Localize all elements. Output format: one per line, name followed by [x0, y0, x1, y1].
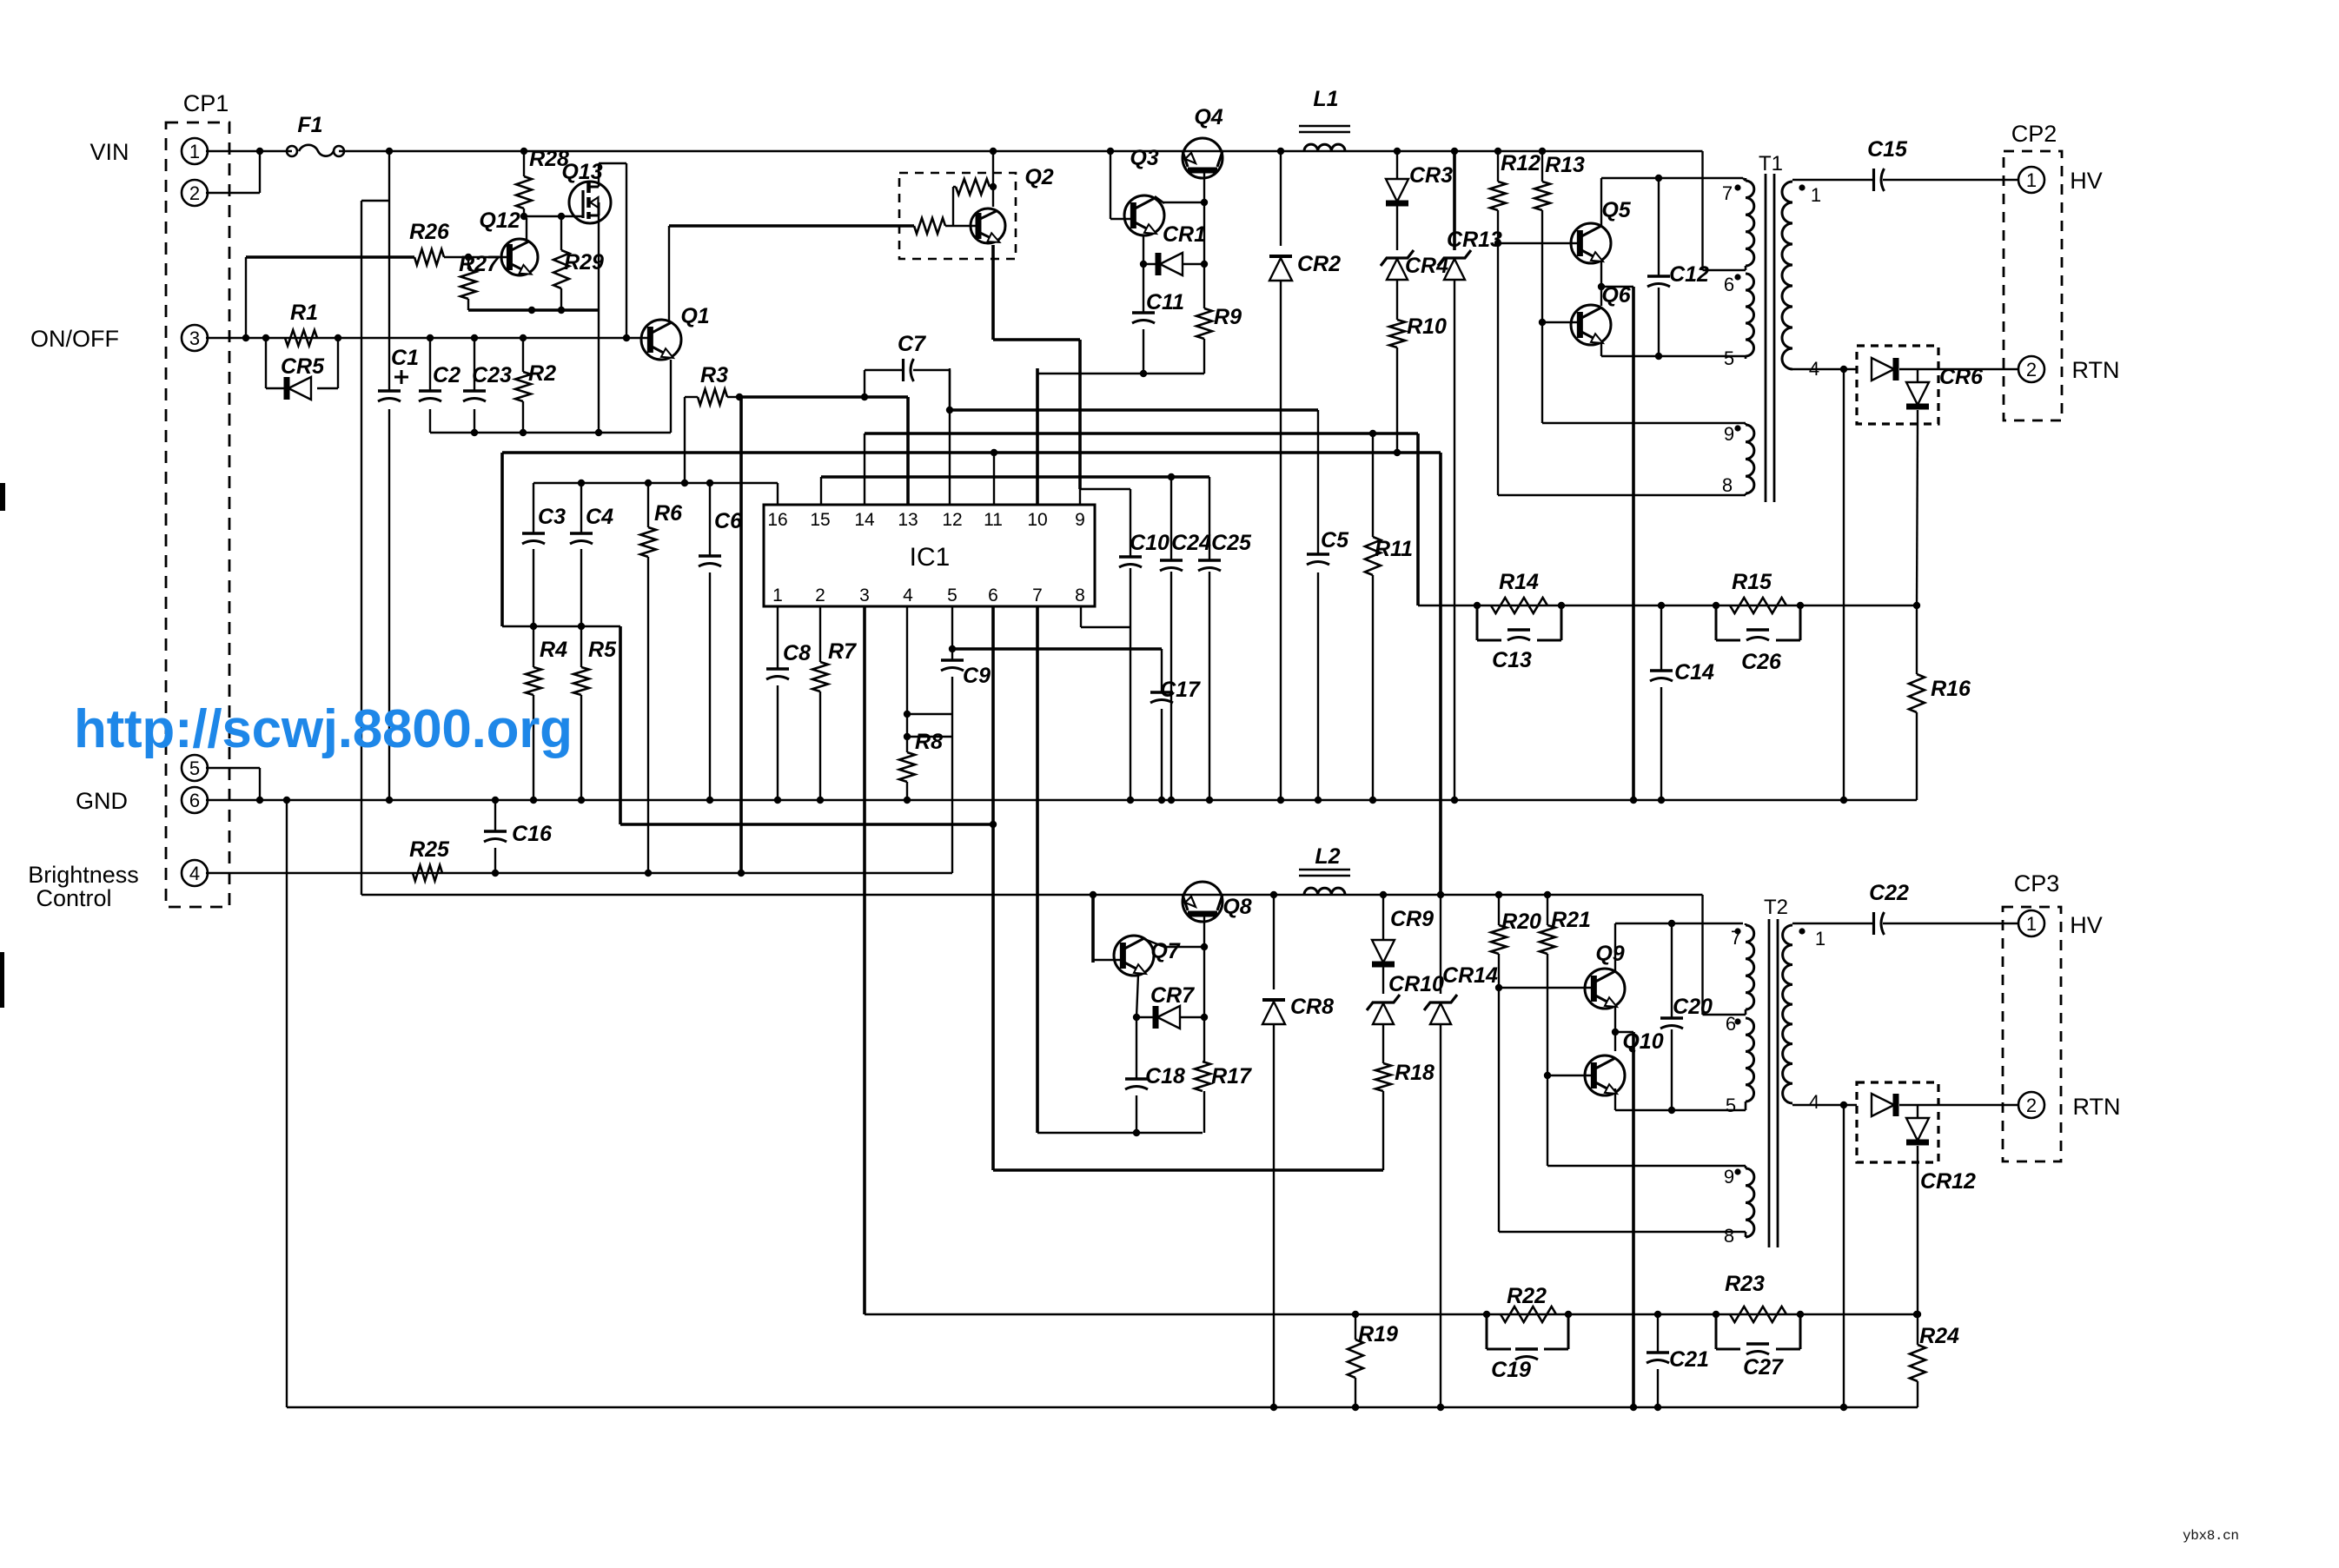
- svg-text:7: 7: [1722, 182, 1733, 204]
- svg-text:9: 9: [1724, 423, 1734, 445]
- svg-text:Control: Control: [36, 885, 111, 911]
- svg-text:2: 2: [815, 586, 825, 605]
- svg-text:T1: T1: [1759, 152, 1783, 175]
- svg-text:C3: C3: [538, 505, 566, 529]
- svg-text:9: 9: [1724, 1166, 1734, 1188]
- svg-text:CR5: CR5: [281, 354, 325, 379]
- svg-text:R4: R4: [540, 638, 567, 662]
- svg-text:1: 1: [2026, 913, 2037, 935]
- svg-text:CR6: CR6: [1939, 365, 1984, 389]
- svg-text:R9: R9: [1214, 305, 1242, 329]
- svg-text:C5: C5: [1321, 528, 1349, 552]
- svg-text:R5: R5: [588, 638, 617, 662]
- svg-text:Q12: Q12: [479, 208, 520, 233]
- svg-text:VIN: VIN: [89, 139, 129, 165]
- svg-text:C17: C17: [1160, 678, 1201, 702]
- svg-text:ON/OFF: ON/OFF: [30, 326, 119, 352]
- svg-text:1: 1: [2026, 169, 2037, 191]
- svg-text:R14: R14: [1499, 570, 1539, 594]
- svg-text:1: 1: [1811, 184, 1821, 206]
- svg-text:R23: R23: [1725, 1272, 1765, 1296]
- svg-text:CR3: CR3: [1409, 163, 1453, 188]
- svg-text:5: 5: [1726, 1095, 1736, 1116]
- svg-text:10: 10: [1027, 510, 1047, 530]
- svg-text:C16: C16: [512, 822, 553, 846]
- svg-text:CP2: CP2: [2011, 121, 2057, 147]
- svg-text:4: 4: [903, 586, 913, 605]
- svg-text:CR1: CR1: [1163, 222, 1206, 247]
- svg-text:C25: C25: [1211, 531, 1252, 555]
- svg-text:IC1: IC1: [910, 543, 951, 572]
- svg-text:CP1: CP1: [183, 90, 229, 116]
- svg-text:4: 4: [1809, 1091, 1819, 1113]
- svg-text:C9: C9: [963, 664, 991, 688]
- svg-text:ybx8.cn: ybx8.cn: [2183, 1528, 2239, 1544]
- svg-text:C24: C24: [1171, 531, 1211, 555]
- svg-text:R11: R11: [1375, 537, 1413, 561]
- svg-text:7: 7: [1731, 927, 1741, 949]
- svg-text:C4: C4: [586, 505, 613, 529]
- svg-text:R21: R21: [1551, 908, 1591, 932]
- svg-text:2: 2: [189, 182, 200, 204]
- svg-text:Q3: Q3: [1130, 146, 1158, 170]
- svg-text:5: 5: [947, 586, 957, 605]
- svg-text:16: 16: [767, 510, 787, 530]
- svg-text:14: 14: [854, 510, 875, 530]
- svg-text:T2: T2: [1764, 896, 1788, 919]
- svg-text:L1: L1: [1313, 87, 1338, 111]
- svg-text:6: 6: [1726, 1013, 1736, 1035]
- svg-text:C21: C21: [1669, 1347, 1709, 1372]
- svg-text:C27: C27: [1743, 1355, 1784, 1379]
- svg-text:R20: R20: [1501, 910, 1541, 934]
- svg-text:R6: R6: [654, 501, 683, 526]
- svg-text:R27: R27: [459, 252, 500, 276]
- svg-text:C20: C20: [1673, 995, 1713, 1019]
- svg-text:R8: R8: [915, 730, 943, 754]
- svg-text:R10: R10: [1407, 314, 1447, 339]
- svg-text:Q2: Q2: [1024, 165, 1053, 189]
- svg-text:R2: R2: [528, 361, 556, 386]
- svg-text:C14: C14: [1674, 660, 1714, 685]
- svg-text:C23: C23: [472, 363, 512, 387]
- svg-text:CR2: CR2: [1297, 252, 1341, 276]
- svg-text:C10: C10: [1130, 531, 1169, 555]
- svg-text:9: 9: [1075, 510, 1085, 530]
- svg-text:Brightness: Brightness: [28, 862, 139, 888]
- svg-text:6: 6: [988, 586, 998, 605]
- svg-text:Q1: Q1: [680, 304, 709, 328]
- svg-text:CR7: CR7: [1150, 983, 1195, 1008]
- svg-text:RTN: RTN: [2071, 357, 2119, 383]
- svg-text:R29: R29: [564, 250, 604, 275]
- svg-text:1: 1: [1815, 928, 1825, 949]
- svg-text:8: 8: [1722, 474, 1733, 496]
- svg-text:HV: HV: [2070, 912, 2103, 938]
- svg-text:5: 5: [189, 758, 200, 779]
- svg-text:R13: R13: [1545, 153, 1585, 177]
- svg-text:3: 3: [189, 327, 200, 349]
- svg-text:Q10: Q10: [1622, 1029, 1663, 1054]
- svg-text:F1: F1: [297, 113, 322, 137]
- svg-text:R16: R16: [1931, 677, 1971, 701]
- svg-text:6: 6: [189, 790, 200, 811]
- svg-text:CR8: CR8: [1290, 995, 1334, 1019]
- svg-text:CR13: CR13: [1447, 228, 1502, 252]
- svg-text:R3: R3: [700, 363, 728, 387]
- svg-text:L2: L2: [1315, 844, 1340, 869]
- svg-text:C15: C15: [1867, 137, 1908, 162]
- svg-text:11: 11: [984, 510, 1003, 530]
- svg-text:CR10: CR10: [1388, 972, 1444, 996]
- svg-text:1: 1: [772, 586, 783, 605]
- svg-text:13: 13: [898, 510, 918, 530]
- svg-text:1: 1: [189, 141, 200, 162]
- svg-text:CR12: CR12: [1920, 1169, 1976, 1194]
- svg-text:http://scwj.8800.org: http://scwj.8800.org: [74, 699, 573, 759]
- svg-text:C11: C11: [1146, 290, 1184, 314]
- svg-text:8: 8: [1724, 1225, 1734, 1247]
- svg-text:C18: C18: [1145, 1064, 1185, 1088]
- svg-text:C1: C1: [391, 346, 419, 370]
- svg-text:C22: C22: [1869, 881, 1909, 905]
- svg-text:8: 8: [1075, 586, 1085, 605]
- svg-text:4: 4: [1809, 358, 1819, 380]
- svg-text:R12: R12: [1501, 151, 1541, 175]
- svg-text:Q4: Q4: [1194, 105, 1223, 129]
- svg-text:C2: C2: [433, 363, 461, 387]
- svg-text:R15: R15: [1732, 570, 1772, 594]
- svg-text:12: 12: [942, 510, 962, 530]
- svg-text:C19: C19: [1491, 1358, 1531, 1382]
- svg-text:15: 15: [810, 510, 830, 530]
- svg-text:HV: HV: [2070, 168, 2103, 194]
- svg-text:Q7: Q7: [1150, 939, 1180, 963]
- svg-text:2: 2: [2026, 1095, 2037, 1116]
- svg-text:5: 5: [1724, 347, 1734, 369]
- svg-text:C8: C8: [783, 641, 811, 665]
- svg-text:Q9: Q9: [1595, 942, 1624, 966]
- svg-text:RTN: RTN: [2072, 1094, 2120, 1120]
- svg-text:Q5: Q5: [1601, 198, 1631, 222]
- svg-text:R1: R1: [290, 301, 318, 325]
- svg-text:R19: R19: [1358, 1322, 1398, 1346]
- svg-text:R18: R18: [1395, 1061, 1435, 1085]
- svg-text:3: 3: [859, 586, 870, 605]
- svg-text:GND: GND: [76, 788, 128, 814]
- svg-text:CR14: CR14: [1442, 963, 1498, 988]
- svg-text:Q13: Q13: [561, 160, 602, 184]
- svg-text:4: 4: [189, 863, 200, 884]
- svg-text:C13: C13: [1492, 648, 1532, 672]
- svg-text:2: 2: [2026, 359, 2037, 380]
- svg-text:R26: R26: [409, 220, 450, 244]
- svg-text:6: 6: [1724, 274, 1734, 295]
- svg-text:7: 7: [1032, 586, 1043, 605]
- svg-text:C12: C12: [1669, 262, 1709, 287]
- svg-text:R7: R7: [828, 639, 857, 664]
- svg-text:CR4: CR4: [1405, 254, 1448, 278]
- svg-text:C6: C6: [714, 509, 743, 533]
- svg-text:R17: R17: [1211, 1064, 1252, 1088]
- svg-text:R22: R22: [1507, 1284, 1547, 1308]
- svg-text:C7: C7: [898, 332, 926, 356]
- svg-text:C26: C26: [1741, 650, 1782, 674]
- svg-text:Q8: Q8: [1223, 895, 1251, 919]
- svg-text:CP3: CP3: [2014, 870, 2060, 896]
- svg-text:R25: R25: [409, 837, 450, 862]
- svg-text:CR9: CR9: [1390, 907, 1434, 931]
- svg-text:R24: R24: [1919, 1324, 1959, 1348]
- svg-text:Q6: Q6: [1601, 283, 1631, 308]
